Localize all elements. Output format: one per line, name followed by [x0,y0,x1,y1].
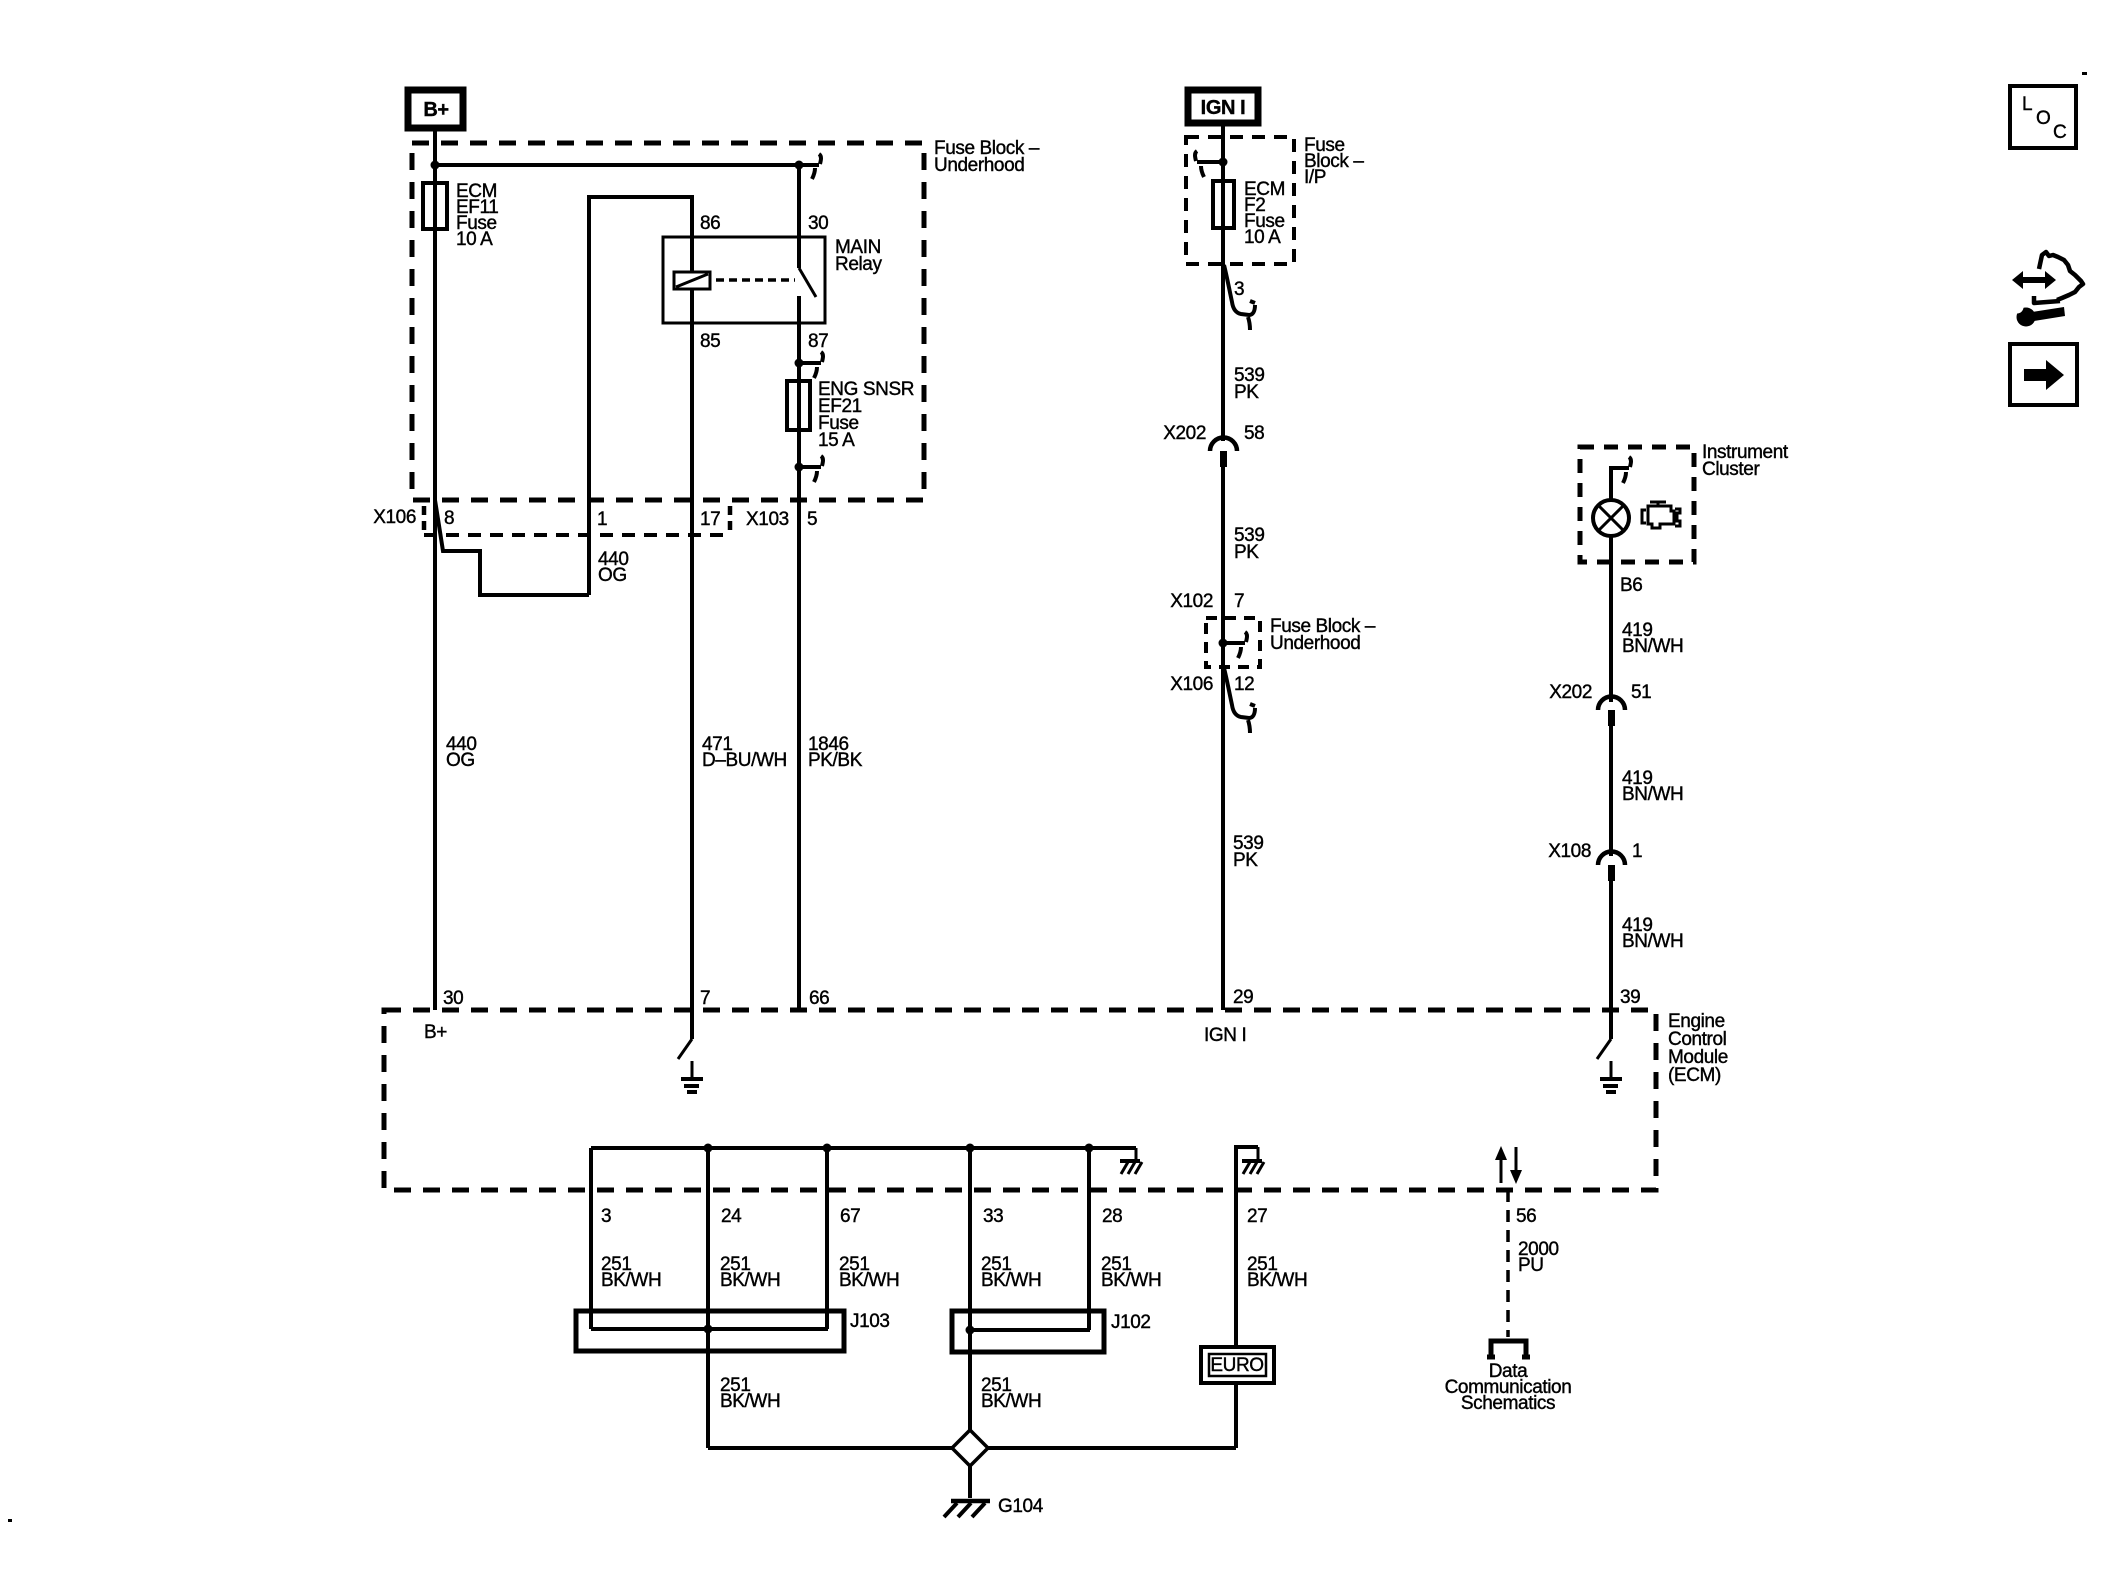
svg-text:L: L [2022,94,2032,115]
svg-text:85: 85 [700,331,720,352]
svg-text:8: 8 [444,508,454,529]
svg-text:B+: B+ [423,99,448,121]
svg-text:G104: G104 [998,1496,1044,1517]
label Fuse Block Underhood small [1270,616,1376,654]
fuse EF11 [423,183,447,229]
relay coil [674,272,710,289]
node junction below relay pin 87 [795,359,804,368]
wire 251 pin 24 [706,1190,710,1448]
wire label 471 D-BU/WH [702,734,787,771]
wire pin 30 from bus to relay switch [797,165,801,268]
fuse F2 [1213,181,1234,228]
wire label 251 BK/WH below J103 [720,1375,780,1412]
label MAIN Relay [835,237,882,275]
svg-text:10 A: 10 A [456,229,493,250]
wire label 440 OG main [446,734,477,771]
power symbol IGN I [1188,90,1258,123]
svg-text:I/P: I/P [1304,167,1326,188]
wire 419 BN/WH middle [1609,726,1613,856]
svg-text:1: 1 [597,509,607,530]
svg-text:X202: X202 [1549,682,1592,703]
forward arrow box [2010,344,2077,405]
svg-text:X103: X103 [746,509,789,530]
switch at pin 7 [678,1010,692,1059]
svg-text:J102: J102 [1111,1312,1151,1333]
svg-text:X106: X106 [1170,674,1213,695]
svg-text:BK/WH: BK/WH [839,1270,899,1291]
label ENG SNSR EF21 Fuse 15 A [818,379,914,451]
wire pin 3 stub [589,1148,593,1190]
diagnostic icon wrench [2011,301,2066,327]
label ECM F2 Fuse 10 A [1244,179,1285,248]
wire 251 pin 33 [968,1190,972,1430]
svg-text:BN/WH: BN/WH [1622,784,1683,805]
svg-text:29: 29 [1233,987,1253,1008]
stray mark top right [2082,72,2087,75]
svg-text:BK/WH: BK/WH [981,1391,1041,1412]
wire inside instrument cluster [1611,468,1629,500]
wire 539 PK down to ECM pin 29 [1221,667,1225,1010]
wire 539 PK to X102 [1221,467,1225,618]
svg-text:BK/WH: BK/WH [720,1391,780,1412]
diagnostic icon outline [2034,252,2083,303]
wire label 2000 PU [1518,1239,1559,1276]
wire through small underhood block [1221,618,1225,667]
label ECM EF11 Fuse 10 A [456,181,498,250]
svg-text:(ECM): (ECM) [1668,1065,1721,1086]
svg-text:5: 5 [807,509,817,530]
svg-text:58: 58 [1244,423,1264,444]
splice diamond G104 [952,1430,988,1466]
svg-text:67: 67 [840,1206,860,1227]
svg-text:D–BU/WH: D–BU/WH [702,750,787,771]
label Fuse Block - Underhood [934,138,1040,176]
svg-text:Underhood: Underhood [1270,633,1360,654]
engine icon MIL [1642,502,1680,528]
connector EURO [1201,1347,1274,1383]
svg-text:J103: J103 [850,1311,890,1332]
fuse EF21 [787,381,810,430]
chassis ground at pin 27 [1242,1147,1264,1174]
node junction pin 28 [1085,1144,1094,1153]
wire label 539 PK second [1234,525,1265,563]
off-page connector bracket [1487,1341,1530,1357]
connector X202-58 pass-through [1210,437,1237,467]
splice pack J102 [952,1311,1104,1352]
label Engine Control Module ECM [1668,1011,1728,1086]
svg-text:PU: PU [1518,1255,1544,1276]
wire 2000 PU dashed at pin 56 [1506,1190,1510,1337]
wire diamond to ground [968,1466,972,1498]
svg-text:10 A: 10 A [1244,227,1281,248]
power symbol B+ [408,90,463,128]
wire pin 28 stub [1087,1148,1091,1190]
svg-text:66: 66 [809,988,829,1009]
wire label 419 BN/WH third [1622,915,1683,952]
connector X108-1 pass-through [1598,852,1625,882]
wire pin 85 down to ECM pin 7 [690,289,694,1010]
svg-text:56: 56 [1516,1206,1536,1227]
wire 251 pin 28 [1087,1190,1091,1330]
svg-text:30: 30 [808,213,828,234]
svg-text:30: 30 [443,988,463,1009]
wire label 251 BK/WH below J102 [981,1375,1041,1412]
wire 251 pin 27 to EURO [1234,1190,1238,1347]
connector hook at 87 junction [799,352,823,378]
svg-text:OG: OG [446,750,475,771]
svg-text:OG: OG [598,565,627,586]
ground at pin 7 [681,1061,703,1092]
wire label 539 PK [1234,365,1265,403]
svg-text:86: 86 [700,213,720,234]
wire pin 87 down to ECM pin 66 [797,296,801,1010]
wire label 251 BK/WH pin33 [981,1254,1041,1291]
node junction below fuse EF21 [795,463,804,472]
svg-text:C: C [2053,122,2066,143]
relay actuate dashed link [716,278,795,282]
wire label 251 BK/WH pin3 [601,1254,661,1291]
node junction at B+ bus [431,161,440,170]
svg-text:BK/WH: BK/WH [981,1270,1041,1291]
fuse block I/P dashed box [1186,137,1294,264]
chassis ground at bus end [1120,1148,1142,1174]
wire 440 OG jog from pin 8 to pin 1 [435,500,589,595]
svg-text:7: 7 [1234,591,1244,612]
svg-text:28: 28 [1102,1206,1122,1227]
fuse block underhood dashed box [412,143,924,500]
ground at pin 39 [1600,1061,1622,1092]
svg-text:12: 12 [1234,674,1254,695]
svg-text:B+: B+ [424,1022,447,1043]
svg-text:X102: X102 [1170,591,1213,612]
node junction pin33 in J102 [966,1326,975,1335]
svg-text:Relay: Relay [835,254,882,275]
wire below EURO [1234,1383,1238,1448]
svg-text:15 A: 15 A [818,430,855,451]
diagnostic icon double arrow [2012,271,2056,289]
wire label 440 OG at pin 1 [598,549,629,586]
connector X202-51 pass-through [1598,697,1625,727]
LOC reference box [2010,86,2076,148]
node junction pin 33 [966,1144,975,1153]
svg-text:O: O [2036,108,2050,129]
relay switch blade [799,268,816,297]
wire pin 24 stub [706,1148,710,1190]
svg-text:BK/WH: BK/WH [1101,1270,1161,1291]
node junction pin 24 [704,1144,713,1153]
svg-text:Schematics: Schematics [1461,1393,1555,1414]
connector line X106 X103 dashed [424,533,731,537]
node junction in small underhood block [1219,639,1228,648]
svg-text:IGN I: IGN I [1204,1025,1246,1046]
connector hook inline below F2 [1224,265,1255,330]
label Data Communication Schematics [1445,1361,1572,1414]
svg-text:PK/BK: PK/BK [808,750,863,771]
ground bus bottom wire [708,1446,1236,1450]
connector hook inside I/P block [1195,151,1223,177]
instrument cluster dashed box [1580,447,1694,562]
wire 251 pin 67 [825,1190,829,1329]
svg-text:17: 17 [700,509,720,530]
wire label 419 BN/WH [1622,620,1683,657]
connector hook inside instrument cluster [1623,457,1631,483]
data arrows at pin 56 [1495,1146,1522,1184]
svg-text:X106: X106 [373,507,416,528]
wire label 251 BK/WH pin28 [1101,1254,1161,1291]
connector hook at end of B+ bus [812,154,821,179]
wire 251 pin 3 [589,1190,593,1329]
svg-text:24: 24 [721,1206,742,1227]
wire B+ bus horizontal [435,163,819,167]
splice pack J103 [576,1311,844,1351]
svg-text:39: 39 [1620,987,1640,1008]
svg-text:Cluster: Cluster [1702,459,1760,480]
svg-text:PK: PK [1233,850,1258,871]
svg-text:1: 1 [1632,841,1642,862]
svg-text:87: 87 [808,331,828,352]
wire pin 33 stub [968,1148,972,1190]
svg-text:PK: PK [1234,382,1259,403]
svg-text:PK: PK [1234,542,1259,563]
wire 440 OG vertical from B+ to ECM pin 30 [433,128,437,1010]
svg-text:B6: B6 [1620,575,1642,596]
svg-text:3: 3 [1234,279,1244,300]
node junction pin24 in J103 [704,1325,713,1334]
wire label 539 PK third [1233,833,1264,871]
svg-text:EURO: EURO [1210,1355,1263,1376]
node junction pin 67 [823,1144,832,1153]
connector separator X106 [422,506,427,530]
connector hook below EF21 [799,456,823,482]
wire label 251 BK/WH pin24 [720,1254,780,1291]
svg-text:BK/WH: BK/WH [720,1270,780,1291]
node junction in I/P block [1219,158,1228,167]
svg-text:X108: X108 [1548,841,1591,862]
chassis ground G104 [944,1501,990,1517]
wire label 251 BK/WH pin27 [1247,1254,1307,1291]
wire label 251 BK/WH pin67 [839,1254,899,1291]
ECM dashed box [384,1010,1656,1190]
switch at pin 39 [1597,1010,1611,1059]
label Instrument Cluster [1702,442,1789,480]
svg-text:51: 51 [1631,682,1651,703]
wire pin 67 stub [825,1148,829,1190]
connector hook inline at X106-12 [1224,668,1255,733]
svg-text:BN/WH: BN/WH [1622,636,1683,657]
svg-text:IGN I: IGN I [1201,97,1246,119]
wire 419 BN/WH from cluster pin B6 [1609,536,1613,702]
ground bus wire inside ECM [591,1146,1136,1150]
wire 419 BN/WH down to ECM pin 39 [1609,881,1613,1010]
relay MAIN box [663,237,825,323]
svg-text:27: 27 [1247,1206,1267,1227]
fuse block underhood small dashed box [1206,618,1260,667]
svg-text:7: 7 [700,988,710,1009]
wire label 1846 PK/BK [808,734,863,771]
indicator lamp [1593,500,1629,536]
svg-text:BK/WH: BK/WH [601,1270,661,1291]
connector separator X103 [728,506,733,530]
svg-text:3: 3 [601,1206,611,1227]
svg-text:BN/WH: BN/WH [1622,931,1683,952]
wire to relay coil pin 86 [589,197,692,595]
svg-text:X202: X202 [1163,423,1206,444]
svg-text:33: 33 [983,1206,1003,1227]
connector hook in small underhood block [1223,632,1247,658]
label Fuse Block I/P [1304,135,1364,188]
svg-text:Underhood: Underhood [934,155,1024,176]
node junction at pin30 branch [795,161,804,170]
wire 539 PK from IGN I down to X202 [1221,126,1225,441]
stray mark bottom left [8,1519,12,1522]
wire pin 27 internal [1236,1147,1258,1190]
wire label 419 BN/WH second [1622,768,1683,805]
svg-text:BK/WH: BK/WH [1247,1270,1307,1291]
